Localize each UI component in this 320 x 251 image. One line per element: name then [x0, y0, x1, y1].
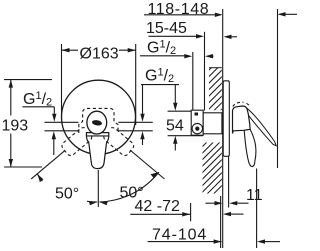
- finished wall face line: [222, 9, 224, 248]
- right inlet stub pipe: [118, 121, 153, 123]
- dashed arc above handle base: [233, 102, 244, 106]
- handle base side view: [233, 106, 251, 134]
- dimension 193: [2, 80, 53, 167]
- svg-text:54: 54: [166, 117, 184, 134]
- svg-text:Ø163: Ø163: [80, 46, 119, 63]
- concealed body block rear: [191, 110, 203, 135]
- left inlet stub pipe: [45, 121, 79, 123]
- screw mark: [195, 113, 199, 116]
- body block through wall: [203, 113, 222, 134]
- grip collar line: [86, 135, 108, 137]
- dashed rotated grip left (50°): [60, 126, 93, 157]
- dimension 15-45: [146, 20, 237, 39]
- dashed cartridge crown outline: [79, 108, 118, 133]
- label G 1/2 right lower with two leaders: [141, 67, 179, 111]
- dimension 74-104: [148, 169, 280, 249]
- label G 1/2 left with leader: [23, 90, 57, 122]
- angle arc right with arrows: [99, 172, 158, 202]
- svg-text:42 -72: 42 -72: [135, 198, 180, 215]
- extension line along right rotated axis: [130, 150, 165, 179]
- escutcheon circle front view: [62, 80, 136, 154]
- dimension 118-148: [144, 1, 297, 18]
- extension line along left rotated axis: [31, 151, 65, 179]
- lever grip side view pointing down: [244, 129, 256, 166]
- svg-text:50°: 50°: [55, 186, 79, 203]
- dimension 11: [206, 187, 263, 205]
- svg-text:11: 11: [246, 187, 263, 204]
- dimension 54: [166, 111, 203, 150]
- union nut circle side view: [192, 123, 202, 133]
- wall hatching lower: [196, 121, 228, 212]
- wall hatching upper: [204, 53, 226, 127]
- vertical reference line below grip: [97, 170, 99, 207]
- handle grip front view: [86, 133, 108, 169]
- handle dome front view: [87, 111, 107, 134]
- wire extension line right of Ø163: [135, 44, 137, 125]
- angle arc left stubs with arrows: [87, 200, 97, 203]
- extension line handle tip open: [277, 9, 279, 168]
- dimension 42-72: [130, 198, 243, 222]
- dimension Ø163: [62, 46, 136, 63]
- svg-text:15-45: 15-45: [146, 20, 187, 37]
- svg-text:193: 193: [2, 118, 29, 135]
- dashed rotated grip right (50°): [102, 126, 135, 157]
- open lever thin diagonal: [245, 107, 276, 146]
- riser pipe in wall: [192, 52, 194, 111]
- arrow up at right inlet bottom: [140, 131, 144, 145]
- svg-text:74-104: 74-104: [152, 226, 207, 243]
- arrow down at right inlet (from G1/2 label drop): [140, 85, 144, 122]
- arrow up at left inlet bottom: [52, 131, 56, 155]
- wire extension line left of Ø163: [61, 44, 63, 119]
- dark lever slot mark: [92, 119, 103, 126]
- extension line escutcheon front: [228, 156, 230, 207]
- escutcheon side view: [223, 81, 229, 157]
- label G 1/2 right upper with arrows at riser: [140, 39, 214, 59]
